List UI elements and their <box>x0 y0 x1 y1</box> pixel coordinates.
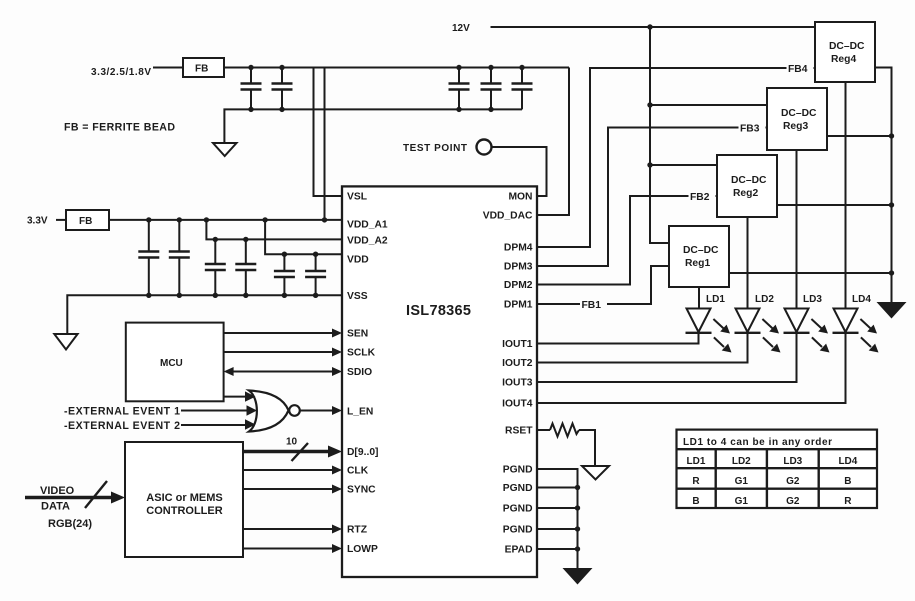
svg-text:DPM3: DPM3 <box>504 262 533 273</box>
wire SCLK <box>224 351 334 353</box>
arrowhead SCLK <box>332 348 342 357</box>
ASIC or MEMS CONTROLLER block <box>125 442 243 557</box>
arrowhead CLK <box>332 466 342 475</box>
wire VDD_A1 riser <box>324 68 326 220</box>
bus D[9..0] (thick) <box>243 450 329 454</box>
arrowhead NOR input 2 <box>247 405 258 415</box>
wire 12V bus to Reg2 <box>650 164 717 166</box>
svg-text:PGND: PGND <box>503 504 533 515</box>
junction dots VDD branch <box>282 252 287 257</box>
junction dots VSS rail <box>146 293 151 298</box>
svg-text:LD3: LD3 <box>803 294 822 305</box>
svg-text:FB1: FB1 <box>582 300 602 311</box>
wire CLK <box>243 469 334 471</box>
ground (VSS, open triangle) <box>54 334 77 350</box>
bus VIDEO DATA (thick) <box>25 496 112 500</box>
wire RSET to resistor <box>537 429 550 431</box>
wire DPM1 to FB1 <box>537 266 669 304</box>
capacitor C10 <box>274 254 295 295</box>
svg-text:IOUT1: IOUT1 <box>502 339 533 350</box>
svg-text:-EXTERNAL EVENT 2: -EXTERNAL EVENT 2 <box>64 420 180 432</box>
label FB3 <box>739 121 766 135</box>
arrowhead RTZ <box>332 525 342 534</box>
laser diode LD1 <box>686 309 732 353</box>
svg-text:L_EN: L_EN <box>347 407 373 418</box>
svg-text:LD1 to 4 can be in any order: LD1 to 4 can be in any order <box>683 437 832 448</box>
wire 3.3/2.5/1.8V to FB1 <box>153 67 183 69</box>
svg-text:DPM1: DPM1 <box>504 300 533 311</box>
svg-text:VDD_DAC: VDD_DAC <box>483 211 533 222</box>
svg-text:Reg3: Reg3 <box>783 121 808 132</box>
wire 12V rail <box>491 26 816 28</box>
wire DPM3 to FB3 <box>537 128 767 267</box>
svg-text:DATA: DATA <box>41 501 70 513</box>
wire SEN <box>224 332 334 334</box>
wire IOUT3 to LD3 cathode <box>537 332 797 383</box>
svg-text:DPM4: DPM4 <box>504 243 533 254</box>
DC-DC Reg2 <box>717 155 777 217</box>
svg-text:3.3/2.5/1.8V: 3.3/2.5/1.8V <box>91 67 151 78</box>
resistor R1 (RSET) <box>550 424 579 437</box>
svg-text:DPM2: DPM2 <box>504 280 533 291</box>
svg-text:G1: G1 <box>735 496 749 507</box>
capacitor C4 <box>481 68 502 110</box>
junction dots 12V bus <box>647 102 652 107</box>
svg-text:SEN: SEN <box>347 329 368 340</box>
wire resistor to ground <box>579 430 595 466</box>
junction dots 3.3V rail <box>146 217 151 222</box>
capacitor C5 <box>512 68 533 110</box>
svg-text:Reg4: Reg4 <box>831 54 856 65</box>
svg-text:RTZ: RTZ <box>347 525 367 536</box>
bus width slash D[9..0] <box>292 443 309 461</box>
wire 12V vertical bus <box>650 27 669 243</box>
svg-text:SYNC: SYNC <box>347 485 376 496</box>
wire SYNC <box>243 488 334 490</box>
power ground (solid triangle, right rail) <box>877 302 907 319</box>
wire EPAD <box>537 548 578 550</box>
wire Reg3 output to LD3 <box>796 150 798 308</box>
svg-text:VSL: VSL <box>347 192 367 203</box>
junction dots on top supply rail <box>248 65 253 70</box>
svg-text:IOUT4: IOUT4 <box>502 399 533 410</box>
wire 3.3V rail to VDD_A1 <box>109 219 342 221</box>
svg-text:DC–DC: DC–DC <box>781 108 817 119</box>
svg-text:Reg1: Reg1 <box>685 258 710 269</box>
wire MON to test point <box>492 147 547 196</box>
svg-text:3.3V: 3.3V <box>27 216 48 227</box>
power ground (solid triangle, PGND) <box>563 568 593 585</box>
svg-text:G2: G2 <box>786 476 800 487</box>
label FB2 <box>689 190 716 204</box>
wire 3.3V to FB2 <box>56 219 66 221</box>
wire Reg4 output to LD4 <box>845 82 847 308</box>
wire EXTERNAL EVENT 2 <box>181 424 248 426</box>
wire DPM4 to FB4 <box>537 68 815 247</box>
wire Reg2 right <box>777 204 892 206</box>
bus width slash VIDEO DATA <box>85 481 107 508</box>
wire 12V bus to Reg3 <box>650 104 767 106</box>
capacitor C8 <box>205 239 226 295</box>
arrowhead SYNC <box>332 485 342 494</box>
laser diode LD3 <box>784 309 830 353</box>
op-amp/IC U1 ISL78365 <box>342 186 537 577</box>
svg-text:PGND: PGND <box>503 483 533 494</box>
svg-text:VDD_A1: VDD_A1 <box>347 220 388 231</box>
svg-text:ASIC or MEMS: ASIC or MEMS <box>146 492 222 504</box>
test point circle <box>477 140 492 155</box>
svg-text:MCU: MCU <box>160 358 183 369</box>
svg-text:FB = FERRITE BEAD: FB = FERRITE BEAD <box>64 122 175 134</box>
svg-text:10: 10 <box>286 437 298 448</box>
laser diode LD4 <box>833 309 879 353</box>
svg-text:-EXTERNAL EVENT 1: -EXTERNAL EVENT 1 <box>64 406 180 418</box>
capacitor C3 <box>449 68 470 110</box>
wire IOUT1 to LD1 cathode <box>537 332 699 344</box>
svg-text:VDD: VDD <box>347 255 369 266</box>
capacitor C11 <box>305 254 326 295</box>
wire VSS rail <box>67 295 342 334</box>
svg-text:FB2: FB2 <box>690 192 710 203</box>
svg-text:FB: FB <box>195 64 208 75</box>
wire EXTERNAL EVENT 1 <box>181 410 250 412</box>
wire Reg1 right <box>729 272 892 274</box>
junction dots right rail <box>889 133 894 138</box>
arrowhead NOR input 3 <box>245 419 256 429</box>
capacitor C6 <box>138 220 159 295</box>
arrowhead L_EN <box>332 406 342 415</box>
wire LOWP <box>243 548 334 550</box>
capacitor C2 <box>272 68 293 110</box>
arrowhead SEN <box>332 329 342 338</box>
junction dot 12V rail <box>647 24 652 29</box>
svg-text:LD3: LD3 <box>783 456 802 467</box>
svg-text:LD2: LD2 <box>755 294 774 305</box>
svg-text:LOWP: LOWP <box>347 544 378 555</box>
MCU block <box>126 323 224 402</box>
capacitor C7 <box>169 220 190 295</box>
svg-text:CLK: CLK <box>347 466 369 477</box>
svg-text:G2: G2 <box>786 496 800 507</box>
svg-text:VDD_A2: VDD_A2 <box>347 236 388 247</box>
arrowhead NOR input 1 <box>245 391 256 401</box>
wire Reg3 right <box>827 135 892 137</box>
ferrite bead FB (top) <box>183 58 224 77</box>
svg-text:B: B <box>692 496 699 507</box>
svg-text:R: R <box>692 476 700 487</box>
arrowhead D[9..0] <box>328 446 342 458</box>
wire Reg4 right to ground rail <box>875 68 892 303</box>
svg-text:RGB(24): RGB(24) <box>48 518 92 530</box>
wire IOUT4 to LD4 cathode <box>537 332 846 404</box>
wire PGND rail <box>537 469 578 568</box>
arrowhead SDIO right <box>332 367 342 376</box>
DC-DC Reg4 <box>815 22 875 82</box>
svg-text:FB4: FB4 <box>788 64 808 75</box>
svg-text:RSET: RSET <box>505 426 533 437</box>
svg-text:IOUT3: IOUT3 <box>502 378 533 389</box>
svg-text:VIDEO: VIDEO <box>40 485 75 497</box>
svg-text:TEST POINT: TEST POINT <box>403 143 467 154</box>
wire PGND 2 <box>537 487 578 489</box>
capacitor C9 <box>235 239 256 295</box>
svg-text:DC–DC: DC–DC <box>731 175 767 186</box>
arrowhead SDIO left <box>224 367 234 376</box>
wire PGND 3 <box>537 507 578 509</box>
wire RTZ <box>243 528 334 530</box>
svg-text:LD4: LD4 <box>852 294 871 305</box>
ground (RSET, open triangle) <box>582 466 609 480</box>
junction dots VDD_A2 branch <box>213 237 218 242</box>
svg-text:FB: FB <box>79 216 92 227</box>
wire Reg2 output to LD2 <box>747 217 749 308</box>
ground (top-left, open triangle) <box>213 143 237 156</box>
arrowhead LOWP <box>332 544 342 553</box>
svg-text:ISL78365: ISL78365 <box>406 303 471 319</box>
svg-text:VSS: VSS <box>347 291 368 302</box>
wire VDD branch <box>265 220 342 254</box>
ferrite bead FB (3.3V) <box>66 210 109 230</box>
wire PGND 4 <box>537 528 578 530</box>
svg-text:Reg2: Reg2 <box>733 188 758 199</box>
wire NOR output to L_EN <box>300 410 334 412</box>
laser diode LD2 <box>735 309 781 353</box>
svg-text:PGND: PGND <box>503 465 533 476</box>
label FB4 <box>787 62 814 76</box>
svg-text:LD1: LD1 <box>687 456 706 467</box>
junction dots on capacitor return rail <box>248 107 253 112</box>
svg-text:SDIO: SDIO <box>347 367 372 378</box>
svg-text:R: R <box>844 496 852 507</box>
wire DPM2 to FB2 <box>537 196 717 285</box>
svg-text:B: B <box>844 476 851 487</box>
wire MCU to NOR gate <box>224 396 248 398</box>
svg-text:12V: 12V <box>452 23 470 34</box>
svg-text:G1: G1 <box>735 476 749 487</box>
svg-text:DC–DC: DC–DC <box>829 41 865 52</box>
svg-text:LD4: LD4 <box>838 456 857 467</box>
svg-text:DC–DC: DC–DC <box>683 245 719 256</box>
DC-DC Reg3 <box>767 88 827 150</box>
svg-text:FB3: FB3 <box>740 124 760 135</box>
wire top supply rail <box>224 67 569 69</box>
svg-text:SCLK: SCLK <box>347 348 376 359</box>
svg-text:EPAD: EPAD <box>505 545 533 556</box>
svg-text:LD1: LD1 <box>706 294 725 305</box>
svg-text:MON: MON <box>508 192 532 203</box>
DC-DC Reg1 <box>669 226 729 287</box>
svg-text:PGND: PGND <box>503 525 533 536</box>
wire SDIO (bidirectional) <box>231 371 334 373</box>
junction dots PGND rail <box>575 485 580 490</box>
capacitor C1 <box>241 68 262 110</box>
svg-text:CONTROLLER: CONTROLLER <box>146 505 222 517</box>
svg-text:D[9..0]: D[9..0] <box>347 447 378 458</box>
wire IOUT2 to LD2 cathode <box>537 332 748 363</box>
wire VDD_DAC drop from supply rail <box>537 68 569 216</box>
wire capacitor return rail <box>224 109 522 143</box>
label FB1 <box>580 298 607 312</box>
NOR gate U2 <box>249 391 300 432</box>
wire VSL riser <box>314 68 343 197</box>
note table: LD order <box>677 430 878 508</box>
wire VDD_A2 branch <box>206 220 342 240</box>
arrowhead VIDEO DATA <box>111 492 125 504</box>
wire Reg1 output to LD1 <box>698 287 700 308</box>
svg-text:IOUT2: IOUT2 <box>502 358 533 369</box>
svg-text:LD2: LD2 <box>732 456 751 467</box>
